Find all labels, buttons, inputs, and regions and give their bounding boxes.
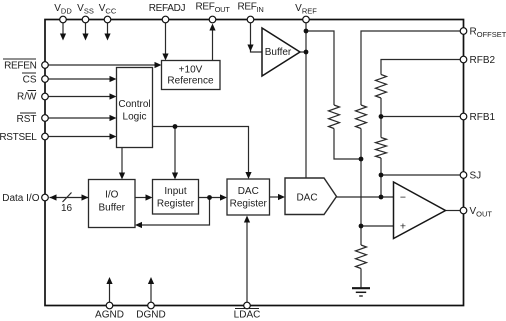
svg-text:AGND: AGND: [95, 310, 124, 321]
wire AGND arrow: [109, 283, 111, 303]
wire VSS supply arrow: [85, 21, 87, 34]
svg-text:Data I/O: Data I/O: [2, 193, 39, 204]
node SJ junction: [379, 173, 384, 178]
arrowhead I/O Buffer to Input Register: [146, 194, 153, 200]
pin REFIN: [247, 16, 254, 23]
svg-text:VSS: VSS: [77, 3, 94, 16]
svg-text:Reference: Reference: [167, 76, 214, 87]
svg-text:REFADJ: REFADJ: [149, 3, 186, 14]
svg-text:DGND: DGND: [136, 310, 165, 321]
pin DGND: [148, 302, 155, 309]
block +10V Reference U1: [162, 61, 221, 90]
resistor R4 (RFB1-SJ): [376, 138, 387, 158]
svg-text:VCC: VCC: [99, 3, 117, 16]
wire REFIN to buffer input: [251, 21, 262, 52]
wire REFADJ to +10V Reference: [165, 21, 167, 55]
pin RSTSEL: [42, 133, 49, 140]
node control line to Input Register junction: [173, 124, 178, 129]
svg-text:+: +: [400, 221, 406, 233]
arrowhead Data I/O right into I/O Buffer: [82, 194, 89, 200]
wire R4 bottom through SJ node to op-amp inverting node: [380, 158, 382, 197]
pin VSS: [82, 16, 89, 23]
arrowhead REFOUT up: [209, 24, 215, 31]
svg-text:Control: Control: [118, 99, 150, 110]
arrowhead REFADJ into reference: [162, 54, 168, 61]
wire RW to Control Logic: [48, 96, 111, 98]
svg-text:REFEN: REFEN: [4, 61, 36, 72]
wire VREF node to resistor R1 top: [306, 31, 334, 105]
block DAC Register: [227, 179, 270, 215]
svg-text:REFIN: REFIN: [237, 2, 263, 15]
wire R3 bottom through RFB1 node to R4 top: [380, 98, 382, 138]
arrowhead VDD: [60, 34, 66, 41]
arrowhead into Input Register top: [172, 173, 178, 180]
label RW with overline on W: [17, 91, 37, 103]
pin VCC: [104, 16, 111, 23]
arrowhead RSTSEL into Control Logic: [110, 133, 117, 139]
wire Data I/O bus to I/O Buffer: [50, 197, 89, 199]
wire RFB1 stub: [381, 116, 463, 118]
pin LDAC: [244, 302, 251, 309]
op-amp reference buffer: [262, 28, 300, 76]
arrowhead DAC Register to DAC: [278, 194, 285, 200]
arrowhead AGND up: [106, 277, 112, 284]
node R1/R2 bottom junction: [359, 157, 364, 162]
svg-text:DAC: DAC: [296, 193, 317, 204]
wire VDD supply arrow: [62, 21, 64, 34]
ground symbol: [352, 288, 370, 296]
block Input Register: [153, 180, 199, 215]
pin Data I/O: [42, 194, 49, 201]
wire I/O Buffer to Input Register: [135, 197, 148, 199]
wire ROFFSET to resistor R2 top: [361, 31, 463, 105]
op-amp output amplifier: [394, 182, 446, 239]
svg-text:DAC: DAC: [238, 186, 259, 197]
wire RFB2 to resistor R3 top: [381, 60, 463, 75]
svg-text:−: −: [400, 192, 406, 204]
wire op-amp noninverting input: [361, 225, 393, 227]
arrowhead DGND up: [148, 277, 154, 284]
svg-text:REFOUT: REFOUT: [195, 2, 230, 15]
block DAC core: [285, 178, 337, 215]
pin VREF: [303, 16, 310, 23]
svg-text:CS: CS: [23, 75, 37, 86]
wire R1 bottom to node at R2 bottom: [334, 129, 361, 160]
wire control to Input Register top: [174, 127, 176, 175]
pin VOUT: [460, 207, 467, 214]
svg-text:RSTSEL: RSTSEL: [0, 132, 37, 143]
arrowhead REFEN into reference: [155, 62, 162, 68]
pin SJ: [460, 172, 467, 179]
pin AGND: [106, 302, 113, 309]
pin REFOUT: [209, 16, 216, 23]
pin RST: [42, 115, 49, 122]
pin REFEN: [42, 62, 49, 69]
pin RFB2: [460, 56, 467, 63]
resistor R2 (ROFFSET leg): [356, 105, 367, 129]
svg-text:VOUT: VOUT: [470, 206, 493, 219]
arrowhead RW into Control Logic: [110, 93, 117, 99]
wire VCC supply arrow: [107, 21, 109, 34]
svg-text:RFB1: RFB1: [470, 112, 496, 123]
svg-text:16: 16: [61, 203, 73, 214]
arrowhead VSS: [82, 34, 88, 41]
arrowhead RST into Control Logic: [110, 115, 117, 121]
node VREF-ROFFSET branch junction: [304, 29, 309, 34]
svg-text:I/O: I/O: [105, 190, 119, 201]
label RST with overline: [17, 113, 37, 125]
svg-text:Register: Register: [230, 199, 268, 210]
arrowhead CS into Control Logic: [110, 76, 117, 82]
pin REFADJ: [162, 16, 169, 23]
node register data feedback junction: [207, 195, 212, 200]
svg-text:RST: RST: [17, 114, 37, 125]
arrowhead Data I/O left: [50, 194, 57, 200]
svg-text:VDD: VDD: [54, 3, 72, 16]
wire VREF net vertical to DAC: [305, 21, 307, 179]
arrowhead VCC: [104, 34, 110, 41]
arrowhead into DAC Register top: [245, 172, 251, 179]
label LDAC with overline: [234, 309, 261, 321]
node buffer output junction: [304, 50, 309, 55]
wire REFOUT from +10V Reference: [212, 28, 214, 61]
svg-text:LDAC: LDAC: [234, 310, 261, 321]
wire Control Logic to Input Register and DAC Register: [153, 127, 249, 175]
wire CS to Control Logic: [48, 78, 111, 80]
bus width slash mark: [63, 193, 72, 203]
svg-text:Logic: Logic: [123, 112, 147, 123]
pin ROFFSET: [460, 28, 467, 35]
arrowhead feedback into I/O Buffer: [135, 222, 142, 228]
resistor R5 (to ground): [356, 245, 367, 268]
wire RST to Control Logic: [48, 117, 111, 119]
resistor R1 (VREF leg): [329, 105, 340, 129]
wire RSTSEL to Control Logic: [48, 136, 111, 138]
svg-text:VREF: VREF: [295, 3, 317, 16]
wire DAC output to op-amp inverting input: [335, 196, 393, 198]
svg-text:Input: Input: [164, 186, 186, 197]
pin RFB1: [460, 113, 467, 120]
IC boundary box: [45, 20, 464, 306]
pin VDD: [60, 16, 67, 23]
wire R2 bottom down to ground resistor: [360, 129, 362, 246]
block Control Logic: [117, 68, 153, 148]
svg-text:Buffer: Buffer: [265, 47, 292, 58]
svg-text:Register: Register: [157, 199, 195, 210]
svg-text:Buffer: Buffer: [99, 203, 126, 214]
wire op-amp output to VOUT: [445, 210, 461, 212]
node noninverting input junction: [359, 224, 364, 229]
block I/O Buffer: [89, 180, 136, 228]
label REFEN with overline: [3, 59, 37, 72]
wire buffer output to VREF node: [299, 51, 306, 53]
svg-text:+10V: +10V: [179, 65, 203, 76]
node RFB1 junction: [379, 114, 384, 119]
svg-text:RFB2: RFB2: [470, 55, 496, 66]
arrowhead REFIN down: [247, 45, 253, 52]
wire DGND arrow: [150, 283, 152, 303]
wire Control Logic to I/O Buffer top: [121, 148, 123, 175]
pin RW: [42, 93, 49, 100]
wire feedback Input Register to I/O Buffer: [142, 198, 210, 226]
svg-text:R/W: R/W: [17, 92, 37, 103]
arrowhead LDAC into DAC Register: [244, 216, 250, 223]
svg-text:ROFFSET: ROFFSET: [470, 27, 506, 40]
wire ground resistor lead: [360, 269, 362, 289]
wire REFEN to +10V Reference: [48, 64, 156, 66]
label CS with overline: [22, 73, 37, 86]
wire SJ stub: [381, 174, 463, 176]
wire DAC Register to DAC: [270, 196, 281, 198]
arrowhead into I/O Buffer top: [119, 173, 125, 180]
node inverting input junction: [379, 195, 384, 200]
pin CS: [42, 76, 49, 83]
svg-text:SJ: SJ: [470, 171, 482, 182]
resistor R3 (RFB2-RFB1): [376, 75, 387, 99]
wire LDAC to DAC Register: [246, 221, 248, 303]
wire Input Register to DAC Register: [199, 197, 223, 199]
arrowhead Input Register to DAC Register: [220, 194, 227, 200]
